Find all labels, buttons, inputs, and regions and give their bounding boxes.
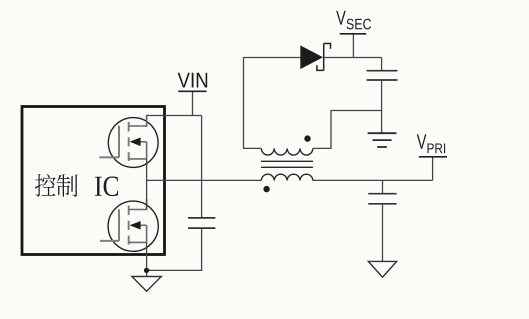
capacitor C1 (VIN bypass) [188,218,215,228]
wire secondary right lead to ground node [313,111,382,149]
polarity dot (primary) [263,186,269,192]
wire switch-node rail to transformer primary [147,179,262,181]
transformer T1 secondary winding [261,148,313,155]
polarity dot (secondary) [304,135,310,141]
terminal VSEC [336,11,371,58]
label 控制 IC [35,174,118,197]
transistor Q1 (high-side MOSFET) [99,116,158,167]
wire Q2 source to ground [146,242,148,276]
control IC box U1 [22,107,165,255]
wire cathode node down to C3 [381,58,383,71]
diode D1 (Schottky rectifier) [300,44,330,71]
wire switch-node vertical Q1 source to Q2 drain [146,159,148,210]
capacitor C3 (secondary output cap) [367,71,398,80]
ground symbol (primary cap, open triangle) [368,261,396,277]
junction dot (ground node) [144,268,149,273]
wire VIN rail to Q1 drain [147,116,202,128]
wire diode cathode to secondary cap [324,57,382,59]
transformer core [261,161,313,167]
terminal VIN [178,73,208,116]
wire primary rail to VPRI [313,179,433,181]
wire C3 bottom to IEC ground [381,80,383,133]
transformer T1 primary winding [261,174,313,180]
transistor Q2 (low-side MOSFET) [100,199,158,251]
wire VIN node down to C1 [201,116,203,218]
ground symbol (secondary, IEC earth) [368,133,397,147]
wire secondary left lead up to diode anode [244,58,301,149]
terminal VPRI [417,134,447,180]
capacitor C2 (primary cap) [368,180,396,261]
wire C1 bottom to ground junction [147,228,202,270]
ground symbol (signal ground, open triangle) [132,277,161,292]
